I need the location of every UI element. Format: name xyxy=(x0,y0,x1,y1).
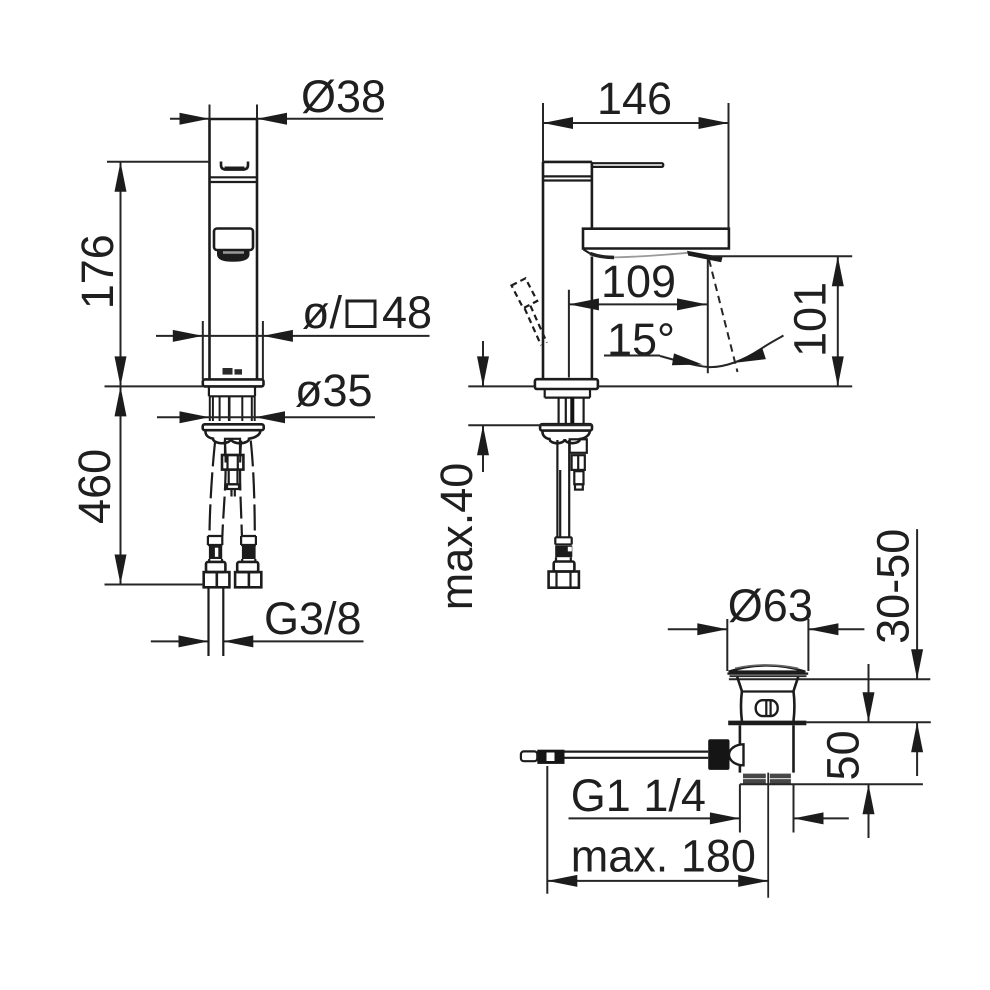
left hose black band xyxy=(209,546,222,562)
right hose collar xyxy=(241,536,256,545)
aerator slant dark xyxy=(687,251,723,262)
dim max.180 xyxy=(547,766,768,894)
svg-text:48: 48 xyxy=(382,287,432,338)
dim G1 1/4 xyxy=(569,770,849,824)
left pipe G3/8 xyxy=(209,587,224,656)
svg-text:G1 1/4: G1 1/4 xyxy=(571,770,706,821)
right hose collar 2 xyxy=(237,562,258,572)
drain neck xyxy=(737,677,798,721)
scalloped mounting nut side xyxy=(542,431,589,444)
escutcheon plate side xyxy=(535,379,598,389)
cap bottom double line front xyxy=(210,177,258,182)
right hose xyxy=(240,441,255,537)
logo mark xyxy=(223,368,243,375)
dim 15 deg xyxy=(604,314,784,370)
svg-text:G3/8: G3/8 xyxy=(264,593,362,644)
scalloped mounting nut front xyxy=(205,430,260,443)
horizontal pull rod xyxy=(537,752,708,758)
SIDE VIEW GROUP xyxy=(431,73,852,610)
drain bottom line tick xyxy=(740,783,923,785)
rod connection ellipse xyxy=(729,744,744,765)
mounting nut plate side xyxy=(540,424,592,430)
svg-text:176: 176 xyxy=(72,234,123,309)
svg-text:Ø38: Ø38 xyxy=(301,71,386,122)
right hose hex nut xyxy=(235,572,261,587)
dim Ø35 xyxy=(157,365,375,423)
dim 50 xyxy=(817,664,874,838)
threaded shank strips front xyxy=(210,396,255,421)
svg-text:146: 146 xyxy=(597,73,672,124)
mounting nut plate front xyxy=(203,424,264,430)
FRONT VIEW GROUP xyxy=(69,71,432,656)
DRAIN VIEW GROUP xyxy=(521,529,931,898)
svg-text:ø35: ø35 xyxy=(295,365,373,416)
spout box side xyxy=(583,229,729,254)
cap bottom double line side xyxy=(543,176,592,180)
spout outlet rect front xyxy=(214,229,253,251)
overflow barrel xyxy=(756,700,778,716)
svg-text:max.40: max.40 xyxy=(431,463,482,611)
handle slot notch front xyxy=(221,162,248,170)
stream vertical reference xyxy=(707,259,709,373)
center stud xyxy=(225,439,240,455)
hose side collar xyxy=(555,537,572,544)
svg-text:30-50: 30-50 xyxy=(868,529,919,644)
under-spout curve xyxy=(590,253,688,258)
center hex nut xyxy=(222,455,243,470)
svg-text:101: 101 xyxy=(784,282,835,357)
water stream dashed 15deg xyxy=(709,260,738,373)
under-counter block front xyxy=(209,386,255,396)
left hose collar xyxy=(208,536,223,545)
dim Ø63 xyxy=(668,580,865,671)
left hose collar 2 xyxy=(206,562,225,572)
hose side xyxy=(557,440,569,537)
G1 1/4 threads gray xyxy=(743,776,791,782)
center lower stud xyxy=(227,470,239,497)
svg-text:ø/: ø/ xyxy=(302,287,342,338)
svg-text:460: 460 xyxy=(69,449,120,524)
dim 30-50 xyxy=(868,529,923,776)
counter line xyxy=(468,385,852,387)
dim max.40 xyxy=(431,341,592,610)
dim Ø/sq 48 xyxy=(156,287,432,379)
hose side hex nut xyxy=(549,572,579,588)
svg-text:Ø63: Ø63 xyxy=(728,580,813,631)
svg-text:109: 109 xyxy=(601,256,676,307)
drain body xyxy=(740,725,794,772)
drain linkage telescoping side xyxy=(570,439,587,489)
lever handle side xyxy=(592,162,663,167)
rod tee knob dark xyxy=(708,739,729,770)
dim 101 xyxy=(710,256,852,386)
shank side strips xyxy=(559,398,584,425)
faucet body side outline xyxy=(543,162,592,379)
right hose black band xyxy=(242,546,256,562)
aerator dark front xyxy=(217,250,250,262)
plug underside tick line xyxy=(729,678,930,680)
faucet body front outline xyxy=(210,119,258,379)
G1 extension lines xyxy=(740,784,794,832)
left hose hex nut xyxy=(204,572,230,587)
svg-text:50: 50 xyxy=(817,730,868,780)
dim 109 xyxy=(569,256,707,378)
hose side black band xyxy=(555,546,572,562)
dim G3/8 xyxy=(151,593,364,648)
drain centerline xyxy=(767,773,769,898)
dim Ø38 xyxy=(170,71,386,125)
rod end fitting dark xyxy=(537,750,564,764)
hose side collar 2 xyxy=(554,562,575,572)
svg-text:max. 180: max. 180 xyxy=(571,831,756,882)
rod end clevis xyxy=(521,751,537,761)
pop-up plug dome xyxy=(727,665,808,676)
under-counter block side xyxy=(545,389,590,398)
drain pull rod dashed side xyxy=(512,278,547,345)
left hose xyxy=(210,441,226,537)
dim 146 xyxy=(543,73,729,229)
dim 176 / 460 xyxy=(69,162,209,585)
escutcheon plate front xyxy=(203,379,264,386)
basin flange thick line xyxy=(728,720,931,725)
